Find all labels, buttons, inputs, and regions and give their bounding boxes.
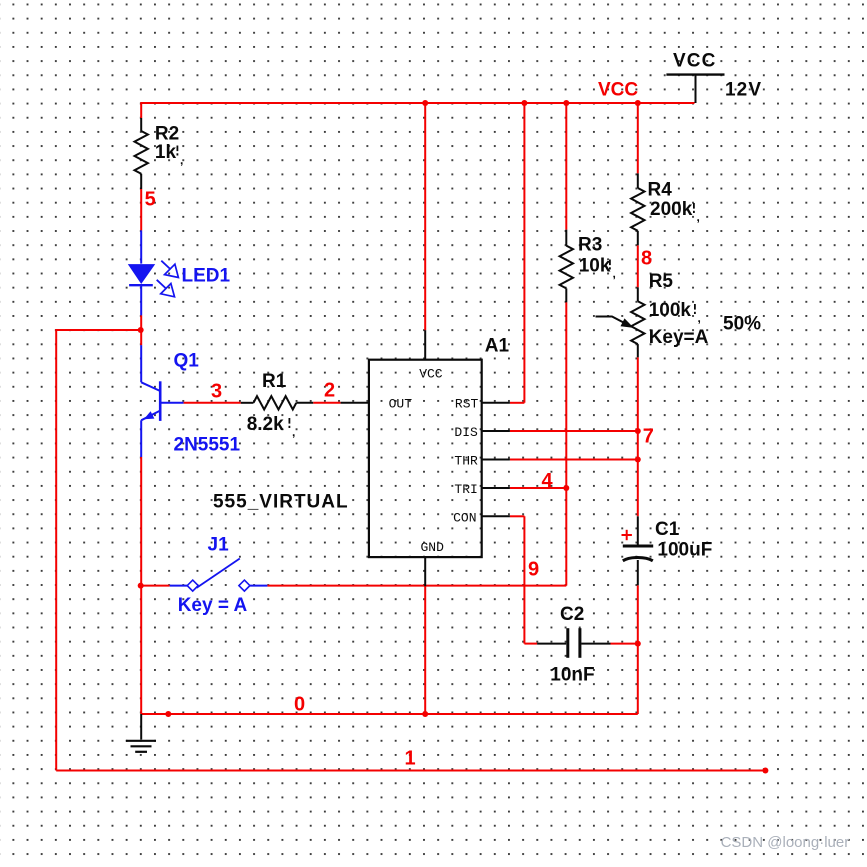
svg-text:5: 5 — [145, 189, 156, 211]
wire net 8 (R4 to R5) — [637, 245, 639, 287]
svg-text:4: 4 — [542, 470, 554, 492]
wire DIS (net 7) — [510, 430, 638, 432]
svg-text:Key=A: Key=A — [649, 327, 709, 348]
svg-text:50%: 50% — [723, 314, 761, 335]
wire net 5 (R2 to LED1) — [140, 189, 142, 230]
node net 0 stray — [165, 711, 171, 717]
pin THR — [482, 459, 510, 461]
node THR / net 7 — [635, 457, 641, 463]
wire net 4 vertical (R3 bottom / TRI / J1) — [565, 302, 567, 585]
node TRI / net 4 — [563, 485, 569, 491]
svg-text:0: 0 — [294, 693, 305, 715]
wire R2 top segment — [140, 102, 142, 118]
op-amp/IC A1 555_VIRTUAL box — [369, 360, 482, 557]
wire net 1 bottom — [56, 770, 765, 772]
node VCC pin / top rail — [422, 100, 428, 106]
node GND pin / net 0 — [422, 711, 428, 717]
pin VCC — [424, 330, 426, 360]
svg-text:3: 3 — [211, 380, 222, 402]
svg-text:100uF: 100uF — [657, 539, 712, 560]
wire CON (net 9) to C2 — [510, 515, 525, 517]
wire C2 right lead — [611, 643, 638, 645]
svg-text:555_VIRTUAL: 555_VIRTUAL — [213, 492, 349, 513]
capacitor C2 — [537, 643, 566, 645]
svg-text:9: 9 — [528, 558, 539, 580]
svg-text:,: , — [180, 153, 183, 167]
svg-text:2N5551: 2N5551 — [174, 435, 241, 456]
svg-text:R1: R1 — [262, 371, 287, 392]
svg-text:10nF: 10nF — [550, 664, 594, 685]
svg-text:VCC: VCC — [419, 366, 443, 381]
svg-text:GND: GND — [421, 540, 445, 555]
wire TRI (net 4) — [510, 487, 566, 489]
svg-text:,: , — [698, 311, 701, 325]
node C2 / C1 column — [635, 641, 641, 647]
svg-text:VCC: VCC — [598, 80, 638, 101]
transistor Q1 2N5551 — [140, 345, 142, 382]
pin GND — [424, 557, 426, 586]
resistor R3 — [565, 230, 567, 246]
svg-text:R3: R3 — [578, 234, 602, 255]
svg-text:OUT: OUT — [389, 396, 413, 411]
svg-text:R4: R4 — [648, 180, 673, 201]
wire LED1 cathode to Q1 collector — [140, 315, 142, 345]
svg-text:DIS: DIS — [454, 425, 478, 440]
node R4 / top rail — [635, 100, 641, 106]
resistor R1 — [184, 402, 241, 404]
wire C1 bottom to C2 junction — [637, 585, 639, 643]
node net 1 end — [762, 768, 768, 774]
svg-text:CON: CON — [453, 510, 476, 525]
svg-text:,: , — [613, 267, 616, 281]
svg-text:8: 8 — [641, 247, 652, 269]
svg-text:RST: RST — [455, 396, 479, 411]
pin DIS — [482, 430, 510, 432]
wire top VCC rail — [141, 102, 694, 104]
svg-text:Q1: Q1 — [174, 350, 200, 371]
node junction at LED/Q1/left branch — [138, 327, 144, 333]
svg-text:LED1: LED1 — [182, 266, 231, 287]
node R3 / top rail — [563, 100, 569, 106]
svg-text:100k: 100k — [649, 300, 692, 321]
wire VCC rail to R4 — [637, 103, 639, 173]
wire R5 to C1 top — [637, 357, 639, 516]
ground symbol — [140, 714, 142, 740]
wire to J1 left — [141, 585, 170, 587]
capacitor C1 — [637, 516, 639, 544]
switch J1 — [170, 585, 188, 587]
wire C2 junction down to net 0 — [637, 644, 639, 714]
svg-text:C1: C1 — [655, 519, 680, 540]
wire J1 right to net 4 column — [267, 585, 566, 587]
node DIS / net 7 — [635, 428, 641, 434]
potentiometer R5 — [637, 287, 639, 301]
wire Q1 emitter down — [140, 457, 142, 714]
svg-text:1k: 1k — [155, 142, 177, 163]
pin RST — [482, 402, 510, 404]
node J1 / emitter — [138, 583, 144, 589]
resistor R4 — [637, 173, 639, 188]
wire left branch horizontal — [56, 329, 141, 331]
pin CON — [482, 515, 510, 517]
svg-text:VCC: VCC — [673, 51, 716, 72]
wire IC VCC pin up — [424, 103, 426, 330]
svg-text:8.2k: 8.2k — [247, 414, 284, 435]
svg-text:CSDN @loong·luer: CSDN @loong·luer — [721, 834, 850, 851]
svg-text:10k: 10k — [579, 256, 611, 277]
wire IC GND pin down — [424, 586, 426, 714]
wire THR — [510, 459, 638, 461]
pin OUT — [341, 402, 369, 404]
svg-text:,: , — [697, 210, 700, 224]
svg-text:J1: J1 — [208, 535, 230, 556]
svg-text:200k: 200k — [650, 199, 693, 220]
svg-text:1: 1 — [405, 747, 416, 769]
svg-text:,: , — [292, 425, 295, 439]
svg-text:TRI: TRI — [454, 482, 477, 497]
svg-text:Key = A: Key = A — [178, 595, 248, 616]
svg-text:2: 2 — [324, 379, 335, 401]
svg-text:12V: 12V — [725, 80, 762, 101]
wire net 0 horizontal — [141, 713, 638, 715]
wire R3 top segment — [565, 103, 567, 230]
svg-text:7: 7 — [643, 426, 654, 448]
wire RST vertical — [523, 103, 525, 403]
svg-text:R5: R5 — [649, 271, 674, 292]
resistor R2 — [140, 118, 142, 131]
svg-text:THR: THR — [454, 454, 478, 469]
node RST column / top rail — [521, 100, 527, 106]
LED LED1 — [140, 230, 142, 263]
VCC power symbol 12V — [666, 73, 724, 75]
svg-text:A1: A1 — [485, 336, 510, 357]
wire far-left vertical — [55, 329, 57, 771]
svg-text:C2: C2 — [560, 604, 584, 625]
pin TRI — [482, 487, 510, 489]
